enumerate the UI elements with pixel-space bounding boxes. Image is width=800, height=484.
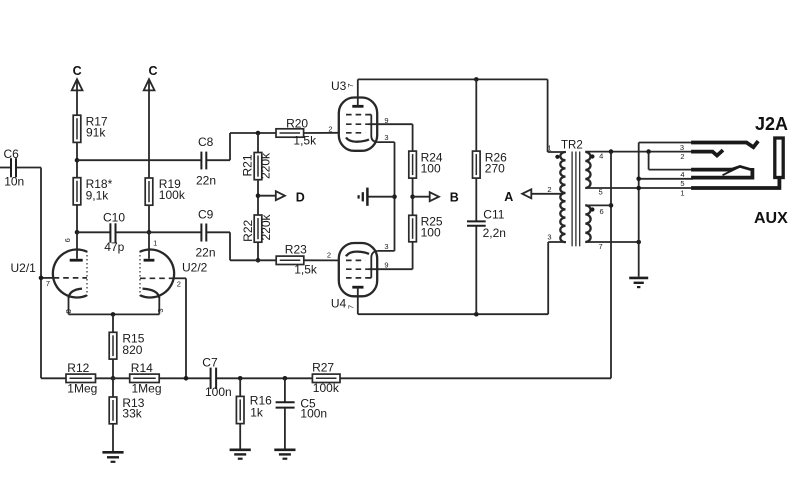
resistor R23 <box>276 242 318 276</box>
resistor R25 <box>409 215 443 242</box>
svg-text:2,2n: 2,2n <box>483 226 506 240</box>
wire R14 to C7 node <box>159 377 210 379</box>
svg-text:R20: R20 <box>286 116 308 130</box>
svg-text:10n: 10n <box>4 175 24 189</box>
wire top rail to R26 <box>475 79 477 151</box>
node grid feedback / C7 <box>184 376 189 381</box>
node cathode/B-line junction <box>392 194 397 199</box>
wire cathode rail U2 <box>69 297 160 315</box>
node B junction <box>410 194 415 199</box>
ground under R16 <box>230 424 251 459</box>
wire C arrow 2 down to R19 <box>148 82 150 179</box>
svg-text:TR2: TR2 <box>561 140 583 152</box>
node C6/grid junction <box>39 276 44 281</box>
capacitor C11 <box>467 207 506 240</box>
svg-text:R12: R12 <box>67 361 89 375</box>
svg-text:2: 2 <box>547 185 551 194</box>
svg-text:AUX: AUX <box>754 210 788 227</box>
node A arrow <box>504 189 562 204</box>
svg-text:C: C <box>73 64 82 78</box>
wire U4 cathode pin 3 <box>377 250 394 252</box>
node R19/C10/C9/U2-2 plate <box>147 230 152 235</box>
ground (rotated) at cathode node <box>359 188 395 206</box>
svg-text:22n: 22n <box>196 245 216 259</box>
resistor R27 <box>312 361 340 395</box>
node jack tip branch <box>646 149 651 154</box>
resistor R20 <box>276 116 317 147</box>
svg-text:R21: R21 <box>241 154 255 176</box>
wire top rail <box>358 78 548 80</box>
capacitor C10 <box>77 210 149 254</box>
connector J2A jack body <box>775 138 783 178</box>
resistor R13 <box>109 378 145 424</box>
wire top rail down to TR2 pin 1 <box>548 79 566 152</box>
svg-text:U2/2: U2/2 <box>182 260 208 274</box>
supply arrow C (second) <box>144 64 158 91</box>
capacitor C9 <box>149 207 216 259</box>
node contact-5 lead <box>636 177 641 182</box>
svg-text:C: C <box>148 64 157 78</box>
wire R17 to R18 <box>76 142 78 177</box>
node B arrow <box>413 190 459 204</box>
wire R26 to C11 <box>475 178 477 221</box>
ground under C5 <box>274 408 295 459</box>
svg-text:1,5k: 1,5k <box>293 133 317 147</box>
wire R18 to grid node <box>76 205 78 232</box>
node pin4 / feedback vertical <box>609 149 614 154</box>
wire U3 cathode pin 3 <box>377 142 394 251</box>
wire U2/2 grid down to R14 node <box>185 278 187 378</box>
triode U2/1 <box>11 232 88 313</box>
node pin7 / ground vertical <box>636 240 641 245</box>
wire R12 to node to R14 <box>96 377 130 379</box>
wire TR2 pin 5 to jack sleeve <box>585 187 693 189</box>
svg-text:R14: R14 <box>131 361 153 375</box>
svg-text:5: 5 <box>680 179 684 188</box>
resistor R19 <box>145 177 186 205</box>
node D arrow <box>258 190 305 204</box>
wire C arrow to R17 <box>76 82 78 116</box>
svg-text:3: 3 <box>384 242 388 251</box>
wire bottom rail left <box>41 377 66 379</box>
capacitor C7 <box>202 355 231 399</box>
resistor R17 <box>73 115 108 143</box>
node D junction <box>256 193 261 198</box>
wire R20 to U3 grid pin 2 <box>304 132 340 134</box>
wire R25 to U4 screen pin 9 <box>369 242 413 269</box>
svg-text:33k: 33k <box>122 407 142 421</box>
ground under TR2 <box>629 278 648 287</box>
svg-text:3: 3 <box>384 133 388 142</box>
resistor R26 <box>473 151 508 179</box>
capacitor C6 <box>0 147 24 188</box>
svg-text:C6: C6 <box>4 147 20 161</box>
svg-text:4: 4 <box>599 152 603 161</box>
wire jack ground vertical <box>639 143 693 277</box>
ground under R13 <box>102 424 123 462</box>
svg-text:U3: U3 <box>331 79 347 93</box>
svg-text:7: 7 <box>46 279 50 288</box>
wire U3 plate to top rail <box>357 79 359 106</box>
svg-text:220k: 220k <box>259 152 273 179</box>
svg-text:1Meg: 1Meg <box>67 382 97 396</box>
svg-text:270: 270 <box>485 162 505 176</box>
wire R24 to node B <box>412 178 414 215</box>
svg-text:B: B <box>450 190 459 204</box>
wire R27 to feedback vertical <box>340 377 611 379</box>
jack pin numbers <box>680 143 685 198</box>
wire R21 to node D <box>257 180 259 215</box>
wire U4 plate to bottom rail <box>357 287 359 314</box>
svg-text:9,1k: 9,1k <box>86 188 110 202</box>
svg-text:7: 7 <box>346 83 355 87</box>
connector J2A jack contact 2 <box>693 151 722 155</box>
resistor R22 <box>241 213 273 242</box>
svg-text:3: 3 <box>547 233 551 242</box>
node R17/R18/C8 junction <box>75 158 80 163</box>
svg-text:47p: 47p <box>104 240 124 254</box>
wire C7 to R27 rail <box>217 377 313 379</box>
node top rail / R26 <box>474 77 479 82</box>
capacitor C8 <box>196 135 216 187</box>
pentode U4 <box>327 242 389 311</box>
node C5 top <box>283 376 288 381</box>
svg-text:C8: C8 <box>198 135 214 149</box>
svg-text:1: 1 <box>547 144 551 153</box>
supply arrow C (left) <box>72 64 83 91</box>
svg-text:3: 3 <box>680 143 684 152</box>
wire TR2 pin 6 <box>585 204 611 206</box>
svg-text:D: D <box>296 190 305 204</box>
svg-text:R23: R23 <box>285 242 307 256</box>
svg-text:2: 2 <box>177 280 181 289</box>
node contact-1 / pin5 lead <box>636 186 641 191</box>
svg-text:U2/1: U2/1 <box>11 261 37 275</box>
svg-text:C11: C11 <box>483 207 504 221</box>
svg-text:7: 7 <box>346 305 355 309</box>
wire bottom rail <box>358 313 548 315</box>
svg-text:100: 100 <box>421 226 441 240</box>
node R15/R12/R14/R13 <box>111 376 116 381</box>
resistor R18* <box>73 177 112 205</box>
svg-text:C9: C9 <box>198 207 214 221</box>
svg-text:6: 6 <box>600 207 604 216</box>
wire TR2 pin 7 to ground <box>585 241 638 243</box>
node R16 top <box>238 376 243 381</box>
resistor R12 <box>66 361 97 396</box>
svg-text:9: 9 <box>384 260 388 269</box>
wire TR2 pin 4 to jack <box>585 151 693 153</box>
resistor R24 <box>409 151 443 179</box>
resistor R14 <box>130 361 162 396</box>
wire R23 to U4 grid pin 2 <box>304 259 340 261</box>
wire bottom rail up to TR2 pin 3 <box>548 242 566 314</box>
wire node to C8 <box>77 159 201 161</box>
svg-text:820: 820 <box>122 343 142 357</box>
connector J2A jack contact 3 <box>693 143 757 148</box>
svg-text:1Meg: 1Meg <box>132 382 162 396</box>
connector J2A jack contact 4 <box>693 166 752 177</box>
triode U2/2 <box>140 232 208 312</box>
wire C9 to R23 node <box>207 232 276 260</box>
svg-text:6: 6 <box>63 238 72 242</box>
svg-text:2: 2 <box>328 125 332 134</box>
transformer TR2 <box>547 140 603 251</box>
svg-text:A: A <box>504 190 513 204</box>
svg-text:1: 1 <box>680 188 684 197</box>
resistor R15 <box>109 332 145 359</box>
svg-text:3: 3 <box>156 308 165 312</box>
wire rail to R15 <box>112 314 114 332</box>
svg-text:C10: C10 <box>103 210 125 224</box>
svg-text:U4: U4 <box>331 296 347 310</box>
svg-text:100n: 100n <box>300 407 327 421</box>
svg-text:100k: 100k <box>313 381 340 395</box>
svg-text:100: 100 <box>421 162 441 176</box>
wire R15 to bottom rail <box>112 359 114 378</box>
node R20/R21/C8 <box>256 131 261 136</box>
node cathode rail center <box>111 312 116 317</box>
svg-text:2: 2 <box>327 250 331 259</box>
svg-text:220k: 220k <box>259 213 273 240</box>
wire R19 to node <box>148 205 150 232</box>
svg-text:R22: R22 <box>241 219 255 241</box>
capacitor C5 <box>276 378 328 420</box>
svg-text:J2A: J2A <box>755 114 788 134</box>
svg-text:5: 5 <box>599 188 603 197</box>
svg-text:R27: R27 <box>312 361 334 375</box>
wire feedback vertical to R27 rail <box>610 152 612 379</box>
svg-text:100k: 100k <box>159 188 186 202</box>
wire U3 screen pin 9 to R24 <box>369 124 413 151</box>
svg-text:C7: C7 <box>202 355 218 369</box>
resistor R16 <box>236 378 272 423</box>
pentode U3 <box>328 79 388 151</box>
wire C8 to R20/R21 node <box>207 133 276 160</box>
connector J2A jack contact 1 and sleeve <box>693 178 779 188</box>
node pin6 junction <box>609 203 614 208</box>
svg-text:91k: 91k <box>86 126 106 140</box>
wire C11 to bottom rail <box>475 226 477 314</box>
wire jack contact 4 lead <box>649 152 693 170</box>
wire R22 to R23 line <box>257 242 259 260</box>
svg-text:4: 4 <box>680 170 684 179</box>
svg-text:100n: 100n <box>205 385 232 399</box>
resistor R21 <box>241 133 273 180</box>
wire C6 to U2/1 grid and down to R12 <box>17 168 54 379</box>
svg-text:7: 7 <box>599 242 603 251</box>
svg-text:1,5k: 1,5k <box>294 263 318 277</box>
node R22/R23/C9 <box>256 258 261 263</box>
node R18/C10/U2-1 plate <box>75 230 80 235</box>
svg-text:22n: 22n <box>196 173 216 187</box>
node bottom rail / C11 <box>474 312 479 317</box>
svg-text:1: 1 <box>153 238 157 247</box>
svg-text:2: 2 <box>680 152 684 161</box>
svg-text:1k: 1k <box>250 406 264 420</box>
